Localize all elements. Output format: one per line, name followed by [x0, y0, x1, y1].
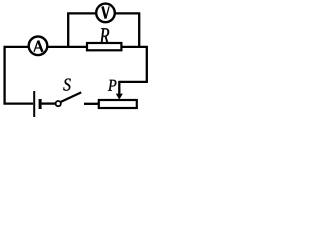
resistor R body — [87, 43, 121, 50]
ammeter A body — [29, 37, 48, 56]
wire battery to switch — [42, 102, 56, 104]
rheostat P slider arrowhead — [116, 94, 123, 100]
voltmeter V body — [96, 4, 115, 23]
wire switch to rheostat — [84, 103, 99, 105]
ammeter A letter — [34, 41, 42, 52]
switch S blade — [61, 92, 81, 102]
rheostat P slider arrow shaft — [118, 81, 120, 95]
battery B1 short plate — [39, 99, 42, 109]
label P — [108, 80, 116, 91]
wire voltmeter branch right — [115, 13, 140, 48]
voltmeter V letter — [103, 6, 110, 18]
battery B1 long plate — [33, 91, 35, 117]
label R — [100, 28, 110, 43]
wire voltmeter branch left — [68, 13, 96, 48]
rheostat P body — [99, 100, 137, 108]
wire resistor to right rail to slider — [119, 47, 147, 82]
label S — [63, 79, 70, 91]
wire ammeter to resistor — [47, 46, 87, 48]
wire left rail (ammeter to battery) — [5, 47, 33, 104]
switch S contact circle — [56, 101, 61, 106]
